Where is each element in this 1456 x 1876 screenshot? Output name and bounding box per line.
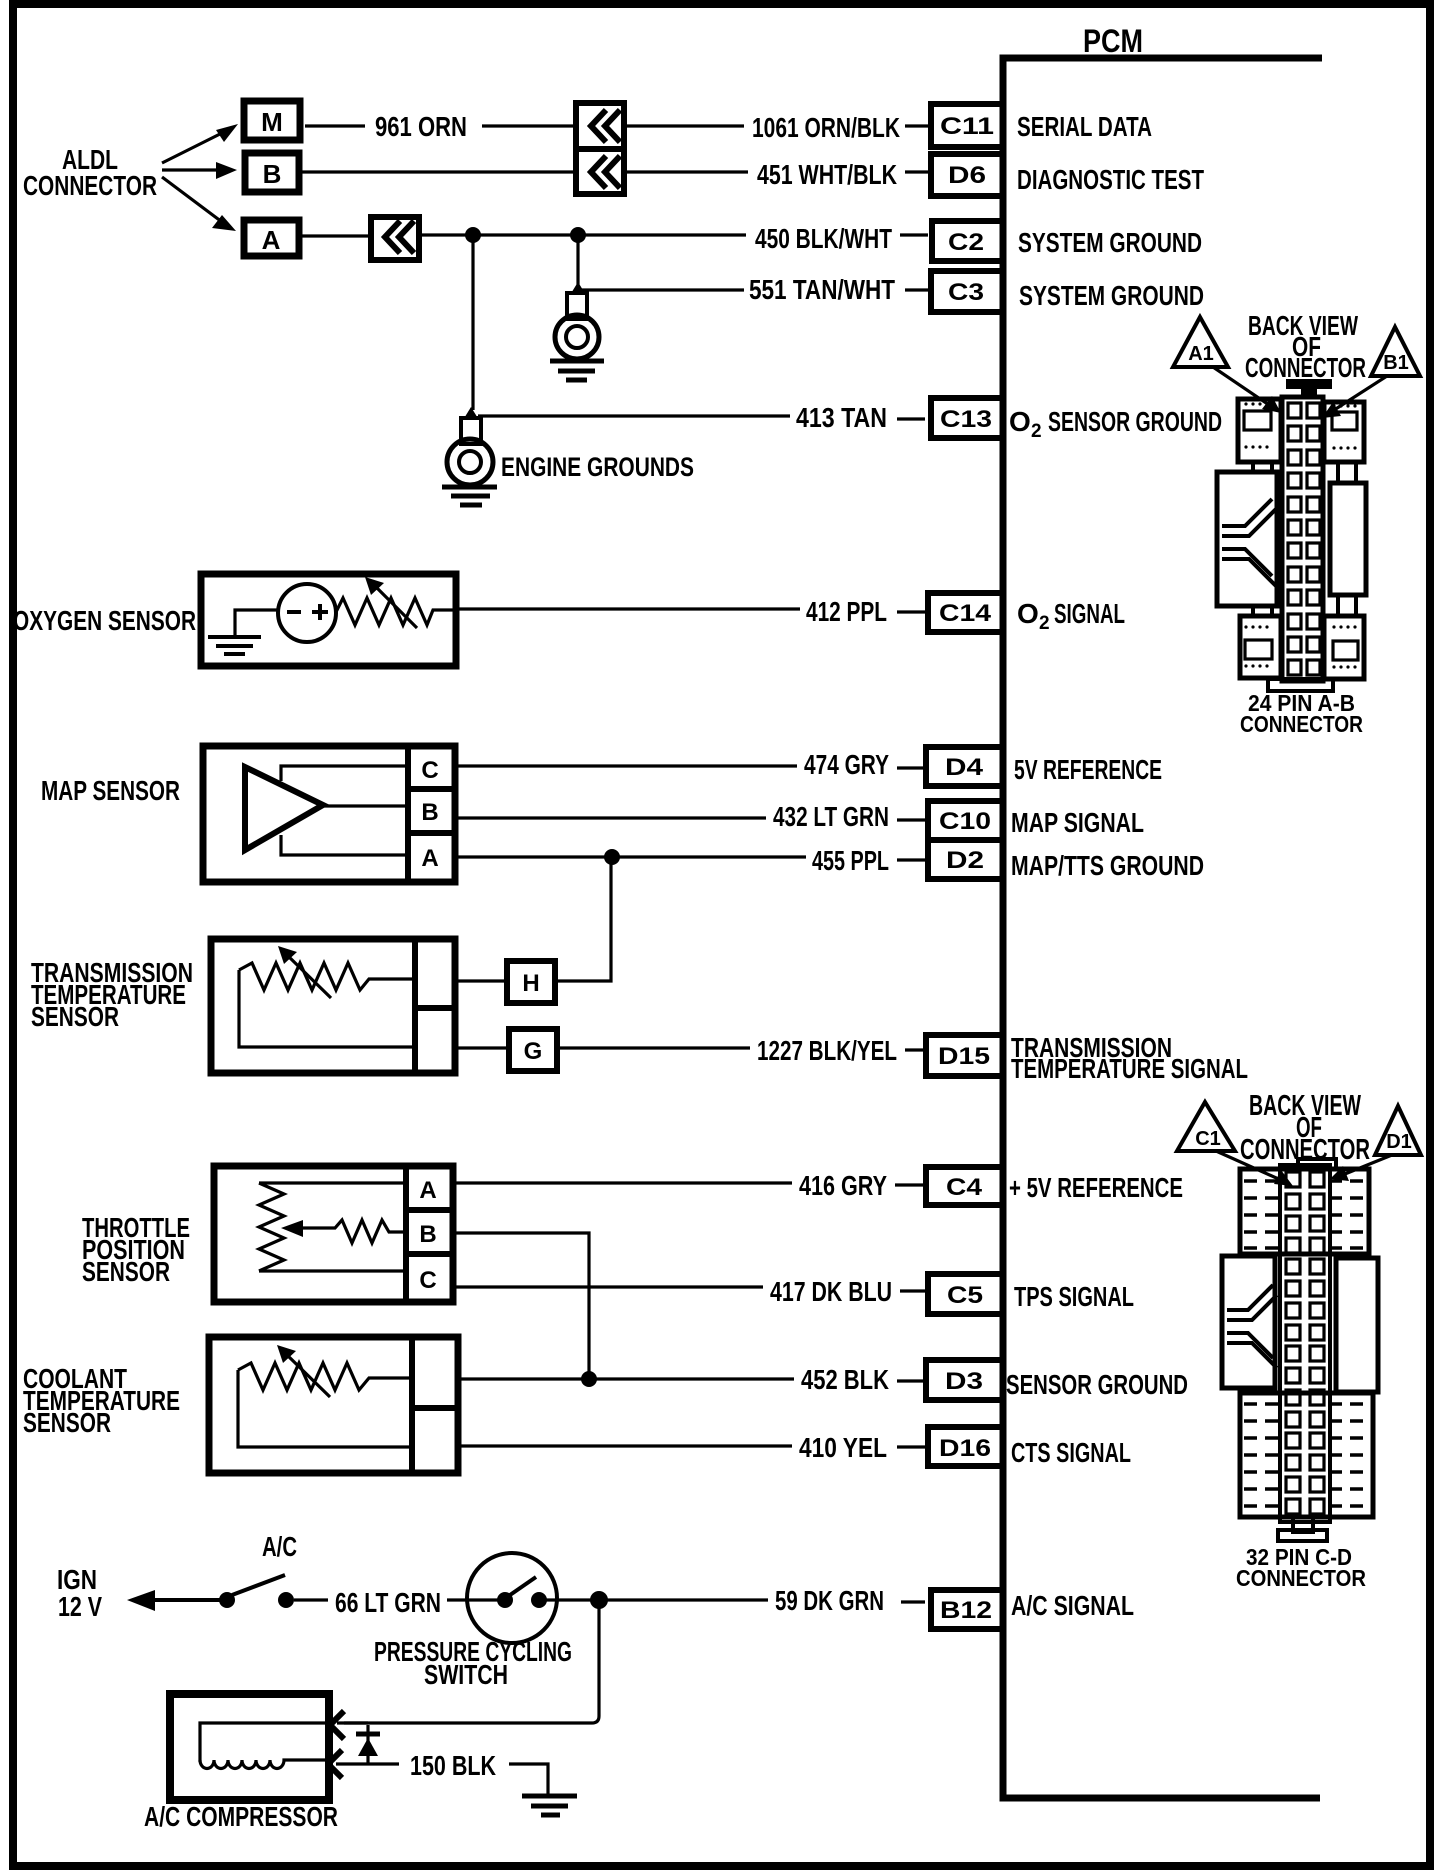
- pin C11: [931, 104, 1003, 147]
- ground ring terminal upper: [570, 282, 586, 295]
- diode: [366, 1725, 369, 1764]
- arrow to terminal M: [162, 130, 228, 163]
- coolant thermistor arrow: [286, 1354, 330, 1397]
- ground symbol: [522, 1794, 577, 1799]
- MAP sensor box: [203, 746, 455, 882]
- svg-text:551 TAN/WHT: 551 TAN/WHT: [749, 274, 895, 305]
- svg-text:C13: C13: [940, 406, 992, 433]
- svg-text:A/C: A/C: [262, 1531, 297, 1562]
- A/C compressor box: [170, 1694, 329, 1800]
- 32-pin right lock block: [1336, 1258, 1378, 1392]
- terminal G: [509, 1029, 557, 1071]
- svg-text:D15: D15: [938, 1043, 990, 1070]
- junction splice dot 1: [465, 227, 481, 243]
- wire splice 2 to ground ring: [576, 235, 579, 287]
- svg-text:C1: C1: [1195, 1128, 1221, 1150]
- wire 410 YEL: [458, 1444, 792, 1447]
- svg-text:C2: C2: [948, 229, 984, 256]
- leader B1 to pin: [1331, 376, 1387, 412]
- 24-pin left lock block: [1217, 472, 1277, 606]
- pin D3: [926, 1360, 1003, 1400]
- wire trans pin to G: [455, 1046, 509, 1049]
- pressure cycling switch: [467, 1553, 557, 1643]
- svg-text:A: A: [421, 845, 438, 872]
- svg-text:C14: C14: [939, 600, 992, 627]
- ALDL terminal B: [245, 153, 299, 192]
- wire 1227 BLK/YEL: [557, 1046, 750, 1049]
- wire bottom arrow to 150 BLK: [336, 1762, 399, 1765]
- svg-text:59 DK GRN: 59 DK GRN: [775, 1585, 884, 1616]
- wire splice 1 to engine ground: [471, 235, 474, 410]
- svg-text:B1: B1: [1383, 352, 1409, 374]
- leader A1 to pin: [1213, 367, 1272, 407]
- svg-text:SWITCH: SWITCH: [424, 1659, 508, 1690]
- pin D15: [926, 1035, 1003, 1076]
- wire trans pin to H: [455, 979, 507, 982]
- pin C13: [931, 398, 1003, 438]
- TPS pin column: [403, 1166, 409, 1302]
- ALDL terminal A: [244, 220, 299, 256]
- svg-text:CONNECTOR: CONNECTOR: [1245, 352, 1366, 383]
- 24-pin right lock block: [1330, 483, 1366, 595]
- wire 1061 ORN/BLK: [624, 124, 744, 127]
- ground ring terminal engine grounds: [463, 407, 479, 420]
- MAP pin column: [405, 746, 411, 882]
- callout triangle A1: [1173, 317, 1228, 367]
- oxygen sensor source circle: [278, 584, 336, 642]
- wire splice down to compressor: [344, 1600, 599, 1723]
- wire 452 BLK: [458, 1377, 794, 1380]
- ALDL terminal M: [244, 101, 300, 140]
- wire switch to splice: [546, 1598, 606, 1601]
- svg-text:C3: C3: [948, 279, 984, 306]
- svg-text:B12: B12: [940, 1597, 992, 1624]
- coolant temp sensor box: [209, 1337, 458, 1473]
- svg-text:474 GRY: 474 GRY: [804, 749, 889, 780]
- coolant pin column: [409, 1337, 415, 1473]
- splice dot TPS B to CTS ground: [581, 1371, 597, 1387]
- svg-text:413 TAN: 413 TAN: [796, 402, 887, 433]
- wire 551 TAN/WHT: [578, 288, 744, 291]
- transmission thermistor: [239, 963, 412, 990]
- pin D4: [926, 747, 1003, 786]
- wire TPS B down to sensor ground splice: [453, 1233, 589, 1379]
- wire 455 PPL: [456, 855, 806, 858]
- arrow to IGN: [135, 1598, 222, 1602]
- svg-text:A: A: [419, 1177, 436, 1204]
- svg-text:CONNECTOR: CONNECTOR: [1240, 1134, 1370, 1166]
- svg-text:451 WHT/BLK: 451 WHT/BLK: [757, 159, 897, 190]
- transmission pin column: [412, 939, 418, 1073]
- svg-text:SERIAL DATA: SERIAL DATA: [1017, 111, 1152, 142]
- svg-text:2: 2: [1039, 613, 1050, 634]
- svg-text:1061 ORN/BLK: 1061 ORN/BLK: [752, 112, 900, 143]
- svg-text:TPS SIGNAL: TPS SIGNAL: [1014, 1281, 1134, 1312]
- pin D6: [931, 154, 1003, 196]
- 32-pin center spine: [1280, 1165, 1330, 1522]
- MAP internal wires: [281, 766, 408, 781]
- svg-text:C: C: [419, 1267, 436, 1294]
- coolant thermistor: [238, 1363, 412, 1390]
- svg-text:MAP SIGNAL: MAP SIGNAL: [1011, 807, 1144, 838]
- 24-pin top tab: [1286, 379, 1332, 399]
- svg-text:OXYGEN SENSOR: OXYGEN SENSOR: [13, 605, 196, 636]
- callout triangle B1: [1371, 327, 1420, 376]
- wire H to splice: [555, 857, 611, 981]
- 32-pin left lock block: [1222, 1256, 1275, 1388]
- connector arrow bottom: [328, 1750, 342, 1778]
- svg-text:SENSOR GROUND: SENSOR GROUND: [1048, 406, 1222, 437]
- 24-pin lower-left cavity block: [1240, 616, 1281, 678]
- oxygen sensor variable resistor: [336, 598, 458, 625]
- PCM box outline: [1003, 58, 1322, 1798]
- svg-text:SENSOR: SENSOR: [23, 1407, 111, 1438]
- svg-text:DIAGNOSTIC TEST: DIAGNOSTIC TEST: [1017, 164, 1204, 195]
- svg-text:O: O: [1009, 406, 1031, 437]
- svg-text:A1: A1: [1188, 343, 1214, 365]
- svg-text:150 BLK: 150 BLK: [410, 1750, 496, 1781]
- svg-text:D3: D3: [945, 1368, 983, 1395]
- connector arrow top: [330, 1711, 344, 1739]
- wire into pressure switch: [447, 1598, 498, 1601]
- oxygen sensor box: [201, 574, 456, 666]
- svg-text:B: B: [421, 799, 438, 826]
- svg-text:5V REFERENCE: 5V REFERENCE: [1014, 754, 1162, 785]
- svg-text:D16: D16: [939, 1435, 991, 1462]
- splice dot MAP A to H: [604, 849, 620, 865]
- svg-text:C4: C4: [946, 1174, 983, 1201]
- svg-text:2: 2: [1031, 421, 1042, 442]
- transmission temp sensor box: [211, 939, 455, 1073]
- wire 416 GRY: [455, 1181, 792, 1184]
- TPS potentiometer: [259, 1181, 406, 1184]
- 32-pin top tab: [1298, 1159, 1336, 1169]
- svg-text:416 GRY: 416 GRY: [799, 1170, 887, 1201]
- svg-text:450 BLK/WHT: 450 BLK/WHT: [755, 223, 892, 254]
- svg-text:D4: D4: [945, 754, 984, 781]
- svg-text:B: B: [419, 1221, 436, 1248]
- compressor clutch coil: [200, 1723, 326, 1762]
- svg-text:+ 5V REFERENCE: + 5V REFERENCE: [1009, 1172, 1183, 1203]
- oxygen sensor internal ground: [235, 610, 278, 637]
- svg-text:SIGNAL: SIGNAL: [1054, 598, 1125, 629]
- svg-text:SYSTEM GROUND: SYSTEM GROUND: [1019, 280, 1204, 311]
- svg-text:1227 BLK/YEL: 1227 BLK/YEL: [757, 1035, 897, 1066]
- wire 417 DK BLU: [455, 1285, 763, 1288]
- wire 66 LT GRN: [294, 1598, 328, 1601]
- 32-pin top cavity block: [1240, 1169, 1369, 1254]
- svg-text:SENSOR: SENSOR: [31, 1001, 119, 1032]
- 24-pin center spine: [1282, 397, 1323, 681]
- svg-text:CONNECTOR: CONNECTOR: [1236, 1565, 1366, 1591]
- leader C1 to pin: [1216, 1151, 1283, 1181]
- pin D2: [928, 840, 1003, 879]
- 24-pin bottom tab: [1268, 679, 1333, 691]
- inline connector symbol, M row: [576, 103, 624, 149]
- pin C14: [928, 593, 1003, 632]
- transmission thermistor arrow: [287, 955, 331, 998]
- wire 412 PPL: [458, 607, 800, 610]
- wire 59 DK GRN: [606, 1598, 768, 1601]
- inline connector symbol, A row: [371, 217, 419, 260]
- svg-text:A/C SIGNAL: A/C SIGNAL: [1011, 1590, 1134, 1621]
- pin C2: [932, 221, 1003, 261]
- wire 961 ORN from M to splice: [305, 124, 365, 127]
- svg-text:66 LT GRN: 66 LT GRN: [335, 1587, 441, 1618]
- svg-text:ENGINE GROUNDS: ENGINE GROUNDS: [501, 452, 694, 482]
- wire 474 GRY: [456, 764, 797, 767]
- wire 150 BLK to ground: [509, 1764, 548, 1795]
- svg-text:452 BLK: 452 BLK: [801, 1364, 889, 1395]
- wire A to connector: [302, 234, 371, 237]
- svg-text:A/C COMPRESSOR: A/C COMPRESSOR: [144, 1801, 338, 1832]
- svg-text:A: A: [262, 225, 281, 255]
- svg-text:D6: D6: [948, 162, 986, 189]
- pin C3: [931, 271, 1003, 312]
- wire 413 TAN: [478, 414, 790, 417]
- svg-text:CONNECTOR: CONNECTOR: [23, 170, 157, 201]
- oxygen sensor arrow: [374, 585, 417, 628]
- svg-text:TEMPERATURE SIGNAL: TEMPERATURE SIGNAL: [1011, 1053, 1248, 1084]
- svg-text:455 PPL: 455 PPL: [812, 845, 889, 876]
- svg-text:12 V: 12 V: [58, 1591, 102, 1622]
- junction splice dot 2: [570, 227, 586, 243]
- svg-text:D1: D1: [1386, 1131, 1412, 1153]
- svg-text:SENSOR GROUND: SENSOR GROUND: [1006, 1369, 1188, 1400]
- pin B12: [931, 1590, 1003, 1629]
- 32-pin bottom cavity block: [1240, 1393, 1373, 1517]
- svg-text:MAP/TTS GROUND: MAP/TTS GROUND: [1011, 850, 1204, 881]
- 32-pin bottom tab: [1293, 1517, 1313, 1532]
- svg-text:412 PPL: 412 PPL: [806, 596, 887, 627]
- svg-text:C11: C11: [940, 113, 994, 140]
- svg-text:C10: C10: [939, 808, 991, 835]
- 24-pin lower-right cavity block: [1324, 616, 1364, 679]
- MAP amplifier triangle: [245, 767, 323, 850]
- callout triangle C1: [1177, 1102, 1235, 1151]
- wire top arrow: [337, 1721, 368, 1724]
- svg-text:417 DK BLU: 417 DK BLU: [770, 1276, 892, 1307]
- wire 450 BLK/WHT from A chevron: [419, 233, 746, 236]
- svg-text:432 LT GRN: 432 LT GRN: [773, 801, 889, 832]
- svg-text:PCM: PCM: [1083, 23, 1143, 59]
- svg-text:CTS SIGNAL: CTS SIGNAL: [1011, 1437, 1131, 1468]
- inline connector symbol, B row: [576, 149, 624, 194]
- TPS box: [214, 1166, 453, 1302]
- svg-text:H: H: [522, 970, 539, 997]
- svg-text:M: M: [261, 107, 283, 137]
- wire 451 WHT/BLK from B: [302, 170, 576, 173]
- svg-text:SYSTEM GROUND: SYSTEM GROUND: [1018, 227, 1202, 258]
- TPS wiper arm: [296, 1220, 406, 1243]
- svg-text:961 ORN: 961 ORN: [375, 111, 467, 142]
- 24-pin upper-right cavity block: [1324, 402, 1364, 462]
- arrow to terminal B: [162, 168, 222, 171]
- pin C5: [928, 1274, 1003, 1314]
- svg-text:C5: C5: [947, 1282, 983, 1309]
- svg-text:O: O: [1017, 598, 1039, 629]
- A/C switch: [219, 1592, 235, 1608]
- terminal H: [507, 961, 555, 1003]
- svg-text:C: C: [421, 757, 438, 784]
- svg-text:D2: D2: [946, 847, 984, 874]
- pin C4: [926, 1167, 1003, 1205]
- wire 432 LT GRN: [456, 816, 766, 819]
- callout triangle D1: [1375, 1106, 1421, 1155]
- arrow to terminal A: [162, 177, 226, 225]
- splice dot A/C signal: [590, 1591, 608, 1609]
- svg-text:MAP SENSOR: MAP SENSOR: [41, 775, 180, 806]
- svg-text:G: G: [524, 1038, 543, 1065]
- pin D16: [928, 1427, 1003, 1466]
- leader D1 to pin: [1340, 1155, 1392, 1176]
- svg-text:410 YEL: 410 YEL: [799, 1432, 887, 1463]
- svg-text:B: B: [263, 159, 282, 189]
- svg-text:CONNECTOR: CONNECTOR: [1240, 711, 1363, 737]
- pin C10: [928, 801, 1003, 840]
- svg-text:SENSOR: SENSOR: [82, 1256, 170, 1287]
- 24-pin block stubs: [1253, 462, 1356, 616]
- 24-pin upper-left cavity block: [1238, 399, 1281, 462]
